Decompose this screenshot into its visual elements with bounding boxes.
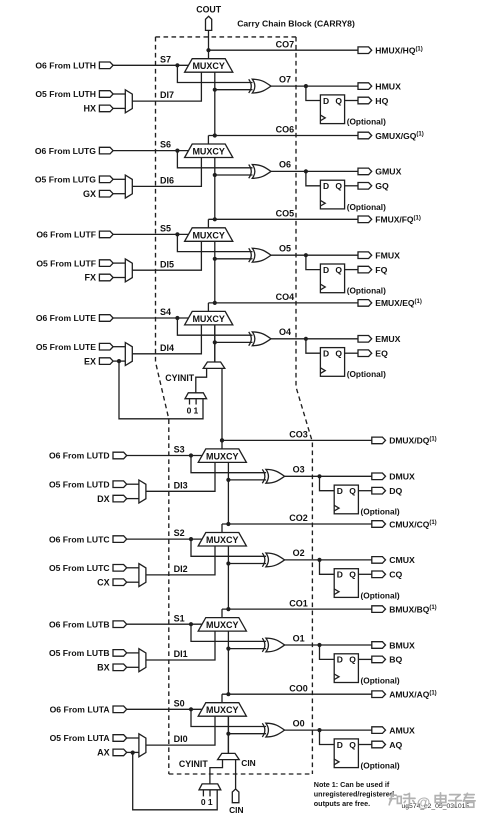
- wire CQ net: [358, 573, 371, 575]
- node carry tap C: [226, 561, 230, 565]
- wire MUXCY E output to CO4: [207, 303, 209, 312]
- wire const 0 stub (middle): [189, 399, 191, 405]
- wire S6 net: [113, 150, 188, 152]
- wire carry to XOR F: [215, 258, 253, 260]
- node CO7 junction: [206, 48, 210, 52]
- wire carry into MUXCY H: [214, 72, 216, 135]
- node S3 junction: [189, 453, 193, 457]
- svg-text:O6 From LUTH: O6 From LUTH: [35, 61, 96, 71]
- node CO2 junction: [226, 522, 230, 526]
- wire S5 to XOR: [177, 234, 252, 251]
- mux MC input select (O5/X select): [139, 564, 146, 587]
- connector input HX: [99, 105, 113, 112]
- wire O5 net: [271, 254, 358, 256]
- clock pin FF A (register): [334, 759, 339, 765]
- svg-text:D: D: [337, 486, 343, 496]
- node CO1 junction: [226, 607, 230, 611]
- svg-text:Note 1: Can be used if: Note 1: Can be used if: [314, 780, 390, 789]
- svg-text:CYINIT: CYINIT: [165, 373, 194, 383]
- wire selector to MUXCY E carry: [214, 325, 216, 362]
- wire CO6 net: [208, 135, 358, 137]
- connector output CMUX: [372, 557, 386, 564]
- wire carry to XOR E: [215, 341, 253, 343]
- wire DI4 net: [132, 325, 201, 354]
- wire carry to XOR B: [228, 648, 266, 650]
- svg-text:DI6: DI6: [160, 176, 174, 186]
- wire MUXCY A output to CO0: [221, 694, 223, 703]
- svg-text:O6 From LUTD: O6 From LUTD: [49, 451, 110, 461]
- node O3 junction: [317, 474, 321, 478]
- connector input O6 From LUTG: [99, 147, 113, 154]
- wire DI6 net: [132, 158, 201, 187]
- mux MUXCY C (S2/DI2): [198, 533, 246, 547]
- svg-text:MUXCY: MUXCY: [206, 705, 239, 715]
- connector output AMUX: [372, 727, 386, 734]
- connector output EMUX: [358, 336, 372, 343]
- svg-text:DMUX: DMUX: [389, 472, 415, 482]
- connector input EX: [99, 358, 113, 365]
- connector input O6 From LUTF: [99, 231, 113, 238]
- svg-text:O5: O5: [279, 244, 291, 254]
- wire CO2 net: [222, 523, 372, 525]
- wire S5 net: [113, 233, 188, 235]
- connector input O5 From LUTH: [99, 91, 113, 98]
- mux bottom carry select: [218, 753, 240, 759]
- node CO5 junction: [213, 217, 217, 221]
- svg-text:DX: DX: [97, 494, 110, 504]
- node carry tap F: [213, 257, 217, 261]
- svg-text:O5 From LUTH: O5 From LUTH: [35, 89, 96, 99]
- svg-text:ug574_c2_05_031015: ug574_c2_05_031015: [402, 803, 470, 810]
- node O7 junction: [304, 84, 308, 88]
- mux middle 01 mux: [185, 393, 207, 399]
- svg-text:DI2: DI2: [174, 564, 188, 574]
- svg-text:MUXCY: MUXCY: [192, 314, 225, 324]
- node CO6 junction: [213, 133, 217, 137]
- svg-text:CMUX: CMUX: [389, 555, 415, 565]
- svg-text:HQ: HQ: [375, 96, 388, 106]
- wire CIN to selector: [235, 760, 237, 789]
- wire MUXCY H output to CO7: [208, 50, 210, 59]
- svg-text:O5 From LUTE: O5 From LUTE: [36, 342, 96, 352]
- wire DI0 net: [146, 716, 215, 745]
- svg-text:FMUX: FMUX: [375, 251, 400, 261]
- svg-text:BX: BX: [97, 663, 110, 673]
- svg-text:CQ: CQ: [389, 570, 402, 580]
- svg-text:O6 From LUTC: O6 From LUTC: [49, 534, 110, 544]
- svg-text:CO2: CO2: [289, 513, 308, 523]
- connector input O6 From LUTC: [113, 536, 127, 543]
- clock pin FF D (register): [334, 505, 339, 511]
- connector CO2 output CMUX/CQ: [372, 521, 386, 528]
- connector output HMUX: [358, 83, 372, 90]
- wire HQ net: [345, 100, 358, 102]
- connector CIN input: [232, 789, 239, 803]
- svg-text:O7: O7: [279, 74, 291, 84]
- wire MUXCY C output to CO2: [221, 524, 223, 533]
- wire S3 net: [127, 455, 202, 457]
- svg-text:O5 From LUTF: O5 From LUTF: [36, 258, 96, 268]
- wire const 1 stub (bottom): [209, 790, 211, 797]
- svg-text:(Optional): (Optional): [361, 675, 400, 685]
- node CO0 junction: [226, 692, 230, 696]
- wire CX to mux: [127, 581, 139, 583]
- svg-text:D: D: [323, 96, 329, 106]
- node O4 junction: [304, 337, 308, 341]
- svg-text:CO6: CO6: [276, 125, 295, 135]
- connector input O5 From LUTF: [99, 260, 113, 267]
- svg-text:O5 From LUTG: O5 From LUTG: [35, 175, 96, 185]
- mux MUXCY D (S3/DI3): [198, 449, 246, 463]
- connector input O6 From LUTE: [99, 315, 113, 322]
- wire COUT to CO7: [208, 30, 210, 50]
- wire O5 E to mux: [113, 346, 125, 348]
- xor gate XOR H (O7): [249, 79, 252, 93]
- xor gate XOR B (O1): [262, 638, 265, 652]
- svg-text:GMUX: GMUX: [375, 167, 401, 177]
- svg-text:DI1: DI1: [174, 649, 188, 659]
- wire FX to mux: [113, 277, 125, 279]
- wire O5 C to mux: [127, 567, 139, 569]
- svg-text:S5: S5: [160, 224, 171, 234]
- xor gate XOR G (O6): [249, 165, 252, 179]
- mux MUXCY G (S6/DI6): [185, 144, 233, 158]
- svg-text:Q: Q: [349, 486, 356, 496]
- svg-text:CO3: CO3: [289, 430, 308, 440]
- svg-text:D: D: [337, 655, 343, 665]
- svg-text:CX: CX: [97, 577, 110, 587]
- wire S1 to XOR: [191, 624, 266, 641]
- svg-text:O5 From LUTA: O5 From LUTA: [50, 733, 110, 743]
- wire carry into MUXCY F: [214, 241, 216, 303]
- wire FQ net: [345, 269, 358, 271]
- wire O5 H to mux: [113, 93, 125, 95]
- connector output AQ: [372, 741, 386, 748]
- svg-text:O3: O3: [293, 465, 305, 475]
- svg-text:O0: O0: [293, 718, 305, 728]
- svg-text:D: D: [337, 570, 343, 580]
- node O1 junction: [317, 643, 321, 647]
- svg-text:MUXCY: MUXCY: [206, 535, 239, 545]
- wire carry into MUXCY C: [227, 546, 229, 609]
- mux MUXCY B (S1/DI1): [198, 618, 246, 632]
- wire selector to MUXCY A carry: [227, 716, 229, 753]
- svg-text:CO5: CO5: [276, 209, 295, 219]
- connector input GX: [99, 190, 113, 197]
- svg-text:EQ: EQ: [375, 349, 388, 359]
- svg-text:MUXCY: MUXCY: [206, 620, 239, 630]
- wire DI7 net: [132, 72, 201, 101]
- mux MUXCY A (S0/DI0): [198, 703, 246, 717]
- node CO4 junction: [213, 301, 217, 305]
- svg-text:S0: S0: [174, 698, 185, 708]
- svg-text:(Optional): (Optional): [347, 286, 386, 296]
- svg-text:O6 From LUTA: O6 From LUTA: [50, 705, 110, 715]
- wire O4 net: [271, 338, 358, 340]
- svg-text:S3: S3: [174, 445, 185, 455]
- node S7 junction: [175, 63, 179, 67]
- svg-text:S1: S1: [174, 613, 185, 623]
- node carry tap B: [226, 647, 230, 651]
- wire CO5 net: [208, 218, 358, 220]
- connector COUT: [206, 16, 212, 30]
- svg-text:S7: S7: [160, 54, 171, 64]
- svg-text:EX: EX: [84, 356, 96, 366]
- svg-text:AX: AX: [97, 748, 110, 758]
- connector CO0 output AMUX/AQ: [372, 691, 386, 698]
- connector input BX: [113, 664, 127, 671]
- connector CO4 output EMUX/EQ: [358, 300, 372, 307]
- node carry tap H: [213, 88, 217, 92]
- connector input O6 From LUTD: [113, 452, 127, 459]
- wire carry to XOR C: [228, 563, 266, 565]
- connector input O5 From LUTB: [113, 650, 127, 657]
- connector input O5 From LUTG: [99, 176, 113, 183]
- svg-text:@: @: [417, 794, 431, 810]
- svg-text:AQ: AQ: [389, 740, 402, 750]
- clock pin FF G (register): [320, 200, 325, 206]
- svg-text:BQ: BQ: [389, 655, 402, 665]
- connector output DQ: [372, 487, 386, 494]
- svg-text:FX: FX: [84, 273, 96, 283]
- wire const 1 stub (middle): [195, 399, 197, 405]
- wire MUXCY B output to CO1: [221, 609, 223, 618]
- svg-text:O6 From LUTB: O6 From LUTB: [49, 619, 110, 629]
- svg-text:GX: GX: [83, 189, 96, 199]
- connector input FX: [99, 274, 113, 281]
- svg-text:(Optional): (Optional): [347, 117, 386, 127]
- svg-text:O5 From LUTD: O5 From LUTD: [49, 479, 110, 489]
- svg-text:COUT: COUT: [196, 5, 222, 15]
- svg-text:0: 0: [201, 797, 206, 807]
- clock pin FF F (register): [320, 284, 325, 290]
- svg-text:CO1: CO1: [289, 598, 308, 608]
- mux bottom 01 mux: [199, 784, 221, 790]
- svg-text:MUXCY: MUXCY: [192, 61, 225, 71]
- wire carry into MUXCY A: [227, 716, 229, 753]
- wire carry to XOR A: [228, 733, 266, 735]
- connector output BQ: [372, 656, 386, 663]
- wire CO4 net: [208, 302, 358, 304]
- svg-text:(Optional): (Optional): [361, 590, 400, 600]
- connector output CQ: [372, 571, 386, 578]
- svg-text:D: D: [323, 181, 329, 191]
- svg-text:Q: Q: [335, 265, 342, 275]
- svg-text:DQ: DQ: [389, 486, 402, 496]
- mux MA input select (O5/X select): [139, 734, 146, 757]
- node S5 junction: [175, 232, 179, 236]
- wire GQ net: [345, 185, 358, 187]
- node EX tap: [117, 359, 121, 363]
- svg-text:DI4: DI4: [160, 343, 174, 353]
- wire carry into MUXCY B: [227, 631, 229, 694]
- node S4 junction: [175, 316, 179, 320]
- wire S0 to XOR: [191, 709, 266, 726]
- node O2 junction: [317, 558, 321, 562]
- wire DI5 net: [132, 241, 201, 270]
- svg-text:DI5: DI5: [160, 259, 174, 269]
- svg-text:1: 1: [194, 405, 199, 415]
- flip-flop FF C (register): [334, 569, 358, 598]
- svg-text:GQ: GQ: [375, 181, 389, 191]
- wire S3 to XOR: [191, 456, 266, 473]
- wire carry into MUXCY G: [214, 158, 216, 220]
- svg-text:outputs are free.: outputs are free.: [314, 799, 370, 808]
- mux MF input select (O5/X select): [125, 259, 132, 282]
- wire O1 net: [285, 644, 372, 646]
- wire MUXCY F output to CO5: [207, 219, 209, 228]
- wire BX to mux: [127, 666, 139, 668]
- svg-text:O5 From LUTB: O5 From LUTB: [49, 648, 110, 658]
- wire CO1 net: [222, 608, 372, 610]
- node S0 junction: [189, 707, 193, 711]
- svg-text:Carry Chain Block (CARRY8): Carry Chain Block (CARRY8): [237, 19, 355, 29]
- connector input O5 From LUTD: [113, 481, 127, 488]
- connector input AX: [113, 749, 127, 756]
- wire O0 net: [285, 729, 372, 731]
- clock pin FF H (register): [320, 115, 325, 121]
- mux MUXCY H (S7/DI7): [185, 59, 233, 72]
- wire CYINIT to selector (bottom): [210, 760, 223, 784]
- wire S4 net: [113, 317, 188, 319]
- flip-flop FF H (register): [320, 95, 344, 124]
- wire O3 net: [285, 475, 372, 477]
- wire carry into MUXCY D: [227, 462, 229, 524]
- xor gate XOR D (O3): [262, 469, 265, 483]
- node CO3 junction: [220, 438, 224, 442]
- connector input O5 From LUTC: [113, 565, 127, 572]
- clock pin FF E (register): [320, 368, 325, 374]
- flip-flop FF D (register): [334, 485, 358, 514]
- connector output EQ: [358, 350, 372, 357]
- wire HX to mux: [113, 107, 125, 109]
- wire CO0 net: [222, 693, 372, 695]
- svg-text:MUXCY: MUXCY: [206, 451, 239, 461]
- mux MG input select (O5/X select): [125, 175, 132, 198]
- svg-text:D: D: [337, 740, 343, 750]
- connector input O5 From LUTE: [99, 343, 113, 350]
- wire CO7 net: [209, 49, 359, 51]
- wire CYINIT to selector (middle): [196, 368, 207, 392]
- mux MB input select (O5/X select): [139, 649, 146, 672]
- node O5 junction: [304, 253, 308, 257]
- svg-text:AMUX: AMUX: [389, 725, 415, 735]
- connector input O6 From LUTH: [99, 62, 113, 69]
- connector output GMUX: [358, 168, 372, 175]
- xor gate XOR A (O0): [262, 723, 265, 737]
- xor gate XOR E (O4): [249, 332, 252, 346]
- node O6 junction: [304, 169, 308, 173]
- flip-flop FF E (register): [320, 348, 344, 377]
- wire AQ net: [358, 744, 371, 746]
- xor gate XOR C (O2): [262, 553, 265, 567]
- svg-text:Q: Q: [349, 740, 356, 750]
- svg-text:O6 From LUTG: O6 From LUTG: [35, 146, 96, 156]
- svg-text:EMUX: EMUX: [375, 334, 400, 344]
- svg-text:CO4: CO4: [276, 292, 295, 302]
- connector output BMUX: [372, 642, 386, 649]
- wire DI2 net: [146, 546, 215, 575]
- svg-text:DI0: DI0: [174, 734, 188, 744]
- node S1 junction: [189, 622, 193, 626]
- wire O7 net: [271, 85, 358, 87]
- wire MUXCY D output to CO3: [221, 440, 223, 449]
- wire O3 to FF D: [320, 476, 335, 490]
- svg-text:Q: Q: [349, 655, 356, 665]
- wire O5 F to mux: [113, 262, 125, 264]
- svg-text:HMUX: HMUX: [375, 81, 401, 91]
- wire DQ net: [358, 490, 371, 492]
- watermark 知乎 @电子君 (drawn as shapes): [389, 793, 415, 806]
- connector CO1 output BMUX/BQ: [372, 606, 386, 613]
- mux MUXCY E (S4/DI4): [185, 311, 233, 325]
- wire carry to XOR G: [215, 174, 253, 176]
- wire O5 B to mux: [127, 652, 139, 654]
- connector input DX: [113, 495, 127, 502]
- wire O5 to FF D: [306, 255, 321, 269]
- wire EX select feedback: [119, 361, 203, 418]
- svg-text:D: D: [323, 265, 329, 275]
- wire S6 to XOR: [177, 151, 252, 168]
- svg-text:unregistered/registered: unregistered/registered: [314, 790, 394, 799]
- svg-text:CO7: CO7: [276, 39, 295, 49]
- svg-text:0: 0: [187, 405, 192, 415]
- mux MUXCY F (S5/DI5): [185, 228, 233, 242]
- connector output FMUX: [358, 252, 372, 259]
- svg-text:O5 From LUTC: O5 From LUTC: [49, 563, 110, 573]
- svg-text:O2: O2: [293, 548, 305, 558]
- wire carry to XOR H: [215, 89, 253, 91]
- wire O0 to FF D: [320, 730, 335, 744]
- wire AX select feedback: [133, 753, 218, 810]
- svg-text:CYINIT: CYINIT: [179, 759, 208, 769]
- svg-text:O1: O1: [293, 633, 305, 643]
- wire O2 to FF D: [320, 560, 335, 574]
- connector input O5 From LUTA: [113, 735, 127, 742]
- wire S7 net: [113, 64, 188, 66]
- wire DX to mux: [127, 498, 139, 500]
- connector output FQ: [358, 266, 372, 273]
- wire CO3 net: [222, 439, 372, 441]
- wire carry into MUXCY E: [214, 325, 216, 362]
- svg-text:MUXCY: MUXCY: [192, 230, 225, 240]
- connector output HQ: [358, 97, 372, 104]
- node carry tap A: [226, 732, 230, 736]
- wire S2 to XOR: [191, 539, 266, 556]
- svg-text:DI7: DI7: [160, 90, 174, 100]
- wire DI1 net: [146, 631, 215, 660]
- wire S7 to XOR: [177, 65, 252, 82]
- svg-text:(Optional): (Optional): [347, 202, 386, 212]
- node carry tap D: [226, 478, 230, 482]
- connector CO3 output DMUX/DQ: [372, 437, 386, 444]
- svg-text:(Optional): (Optional): [347, 369, 386, 379]
- flip-flop FF A (register): [334, 739, 358, 768]
- svg-text:FQ: FQ: [375, 265, 387, 275]
- connector input O6 From LUTB: [113, 621, 127, 628]
- svg-text:1: 1: [208, 797, 213, 807]
- connector CO6 output GMUX/GQ: [358, 132, 372, 139]
- node carry tap E: [213, 340, 217, 344]
- mux ME input select (O5/X select): [125, 343, 132, 366]
- svg-text:(Optional): (Optional): [361, 761, 400, 771]
- wire S1 net: [127, 623, 202, 625]
- wire EX to mux: [113, 360, 125, 362]
- svg-text:(Optional): (Optional): [361, 507, 400, 517]
- mux MH input select (O5/X select): [125, 90, 132, 113]
- connector output DMUX: [372, 473, 386, 480]
- wire O5 D to mux: [127, 483, 139, 485]
